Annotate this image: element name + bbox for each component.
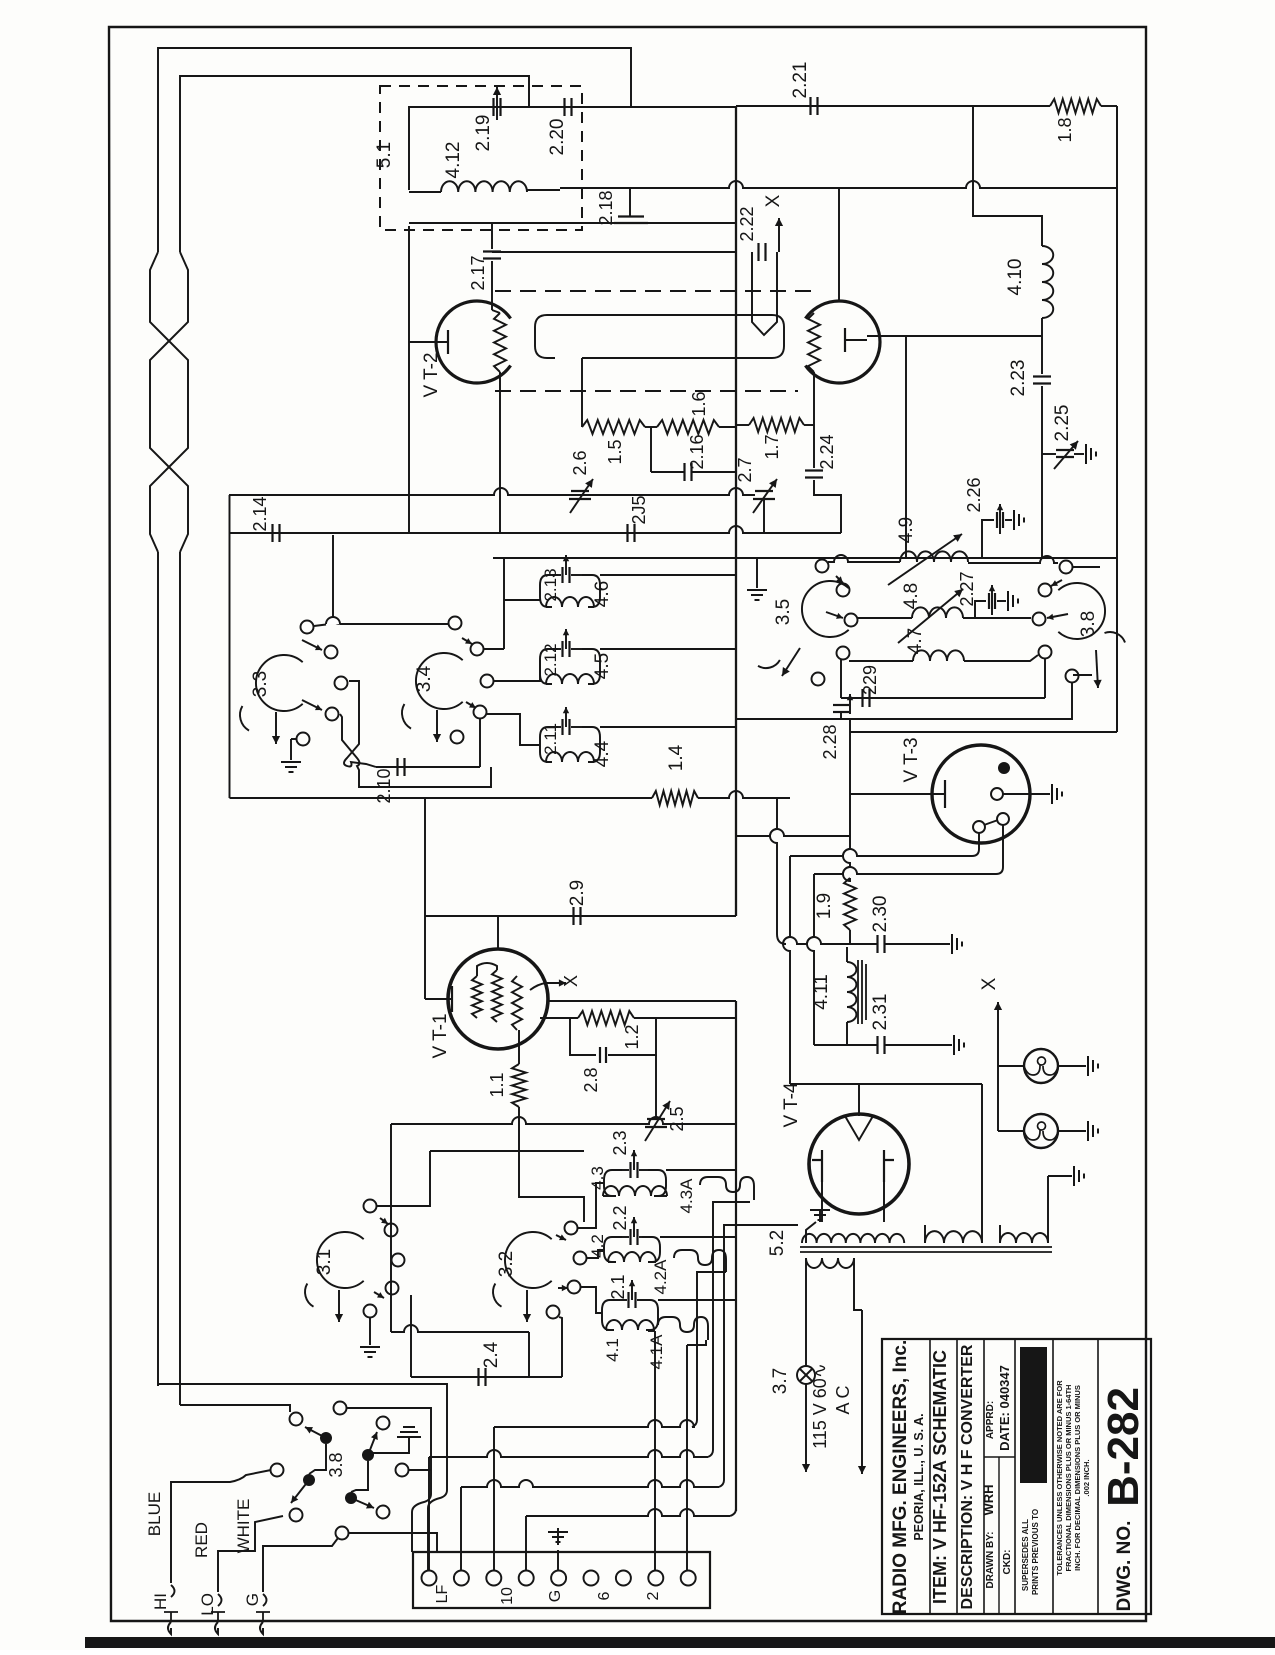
svg-text:10: 10: [499, 1587, 516, 1605]
VT-4 cathodes: [812, 1150, 894, 1182]
capacitor 2.19: [493, 87, 501, 120]
switch 3.2 arc: [505, 1232, 552, 1288]
svg-text:2.18: 2.18: [596, 190, 616, 225]
wire 1.4 right: [698, 791, 790, 798]
svg-text:TOLERANCES UNLESS OTHERWISE NO: TOLERANCES UNLESS OTHERWISE NOTED ARE FO…: [1055, 1380, 1064, 1576]
title city: [912, 1413, 926, 1540]
resistor 1.6: [645, 420, 736, 434]
wire 3.3 to 3.4 top: [314, 617, 448, 626]
label 1.6: [689, 391, 709, 416]
label 5.1: [374, 142, 395, 168]
wire strip row 1516: [526, 1509, 736, 1570]
capacitor 2.10: [398, 758, 405, 776]
title drawn by: [981, 1484, 996, 1588]
svg-text:INCH. FOR DECIMAL DIMENSIONS: INCH. FOR DECIMAL DIMENSIONS PLUS OR MIN…: [1073, 1385, 1082, 1571]
label G strip: [547, 1590, 564, 1602]
title supersedes: [1021, 1509, 1040, 1595]
label 5.2: [767, 1230, 788, 1256]
wire row 1151: [377, 1151, 584, 1206]
svg-text:2.8: 2.8: [581, 1067, 601, 1092]
svg-text:4.8: 4.8: [901, 583, 922, 609]
capacitor 2.15: [628, 524, 635, 542]
wire VT-4 plate row: [790, 1083, 982, 1085]
vertical 2.14 to switch box: [333, 535, 340, 624]
coil 4.4 assembly with trimmer 2.11: [540, 707, 600, 762]
border frame: [109, 27, 1146, 1621]
label 1.5: [605, 439, 625, 464]
crossover X junction: [340, 681, 491, 787]
switch 3.3 ground: [281, 739, 301, 772]
switch 3.4 arc: [416, 653, 463, 709]
title dwg no: [1114, 1521, 1135, 1612]
wire 3.8 block top2: [180, 1405, 290, 1412]
coil 4.7: [849, 650, 1038, 661]
svg-text:CKD:: CKD:: [1002, 1550, 1013, 1575]
capacitor 2.26: [982, 504, 1012, 558]
label 2.15: [629, 495, 649, 524]
pilot lamp 2: [998, 1114, 1086, 1148]
svg-text:2.20: 2.20: [547, 119, 568, 156]
right bus vertical: [1116, 106, 1118, 732]
coil 4.12: [409, 181, 560, 192]
VT-4 cathode leads: [822, 1182, 884, 1222]
VT-1 grid top hooks: [477, 963, 497, 976]
capacitor 2.8 loop: [570, 1018, 656, 1063]
VT-1 grids: [472, 970, 522, 1030]
switch 3.8 contacts: [271, 1402, 409, 1540]
resistor 1.2: [578, 1011, 634, 1025]
svg-text:2.9: 2.9: [567, 880, 588, 906]
switch 3.5 arrows: [826, 576, 843, 619]
AC arrow 1: [802, 1384, 810, 1472]
svg-text:3.7: 3.7: [770, 1368, 791, 1394]
coil 4.11 core: [858, 960, 866, 1024]
label 4.4: [592, 740, 613, 767]
VT-1 X arrow: [530, 975, 581, 990]
svg-text:5.1: 5.1: [374, 142, 395, 168]
svg-text:1.8: 1.8: [1055, 117, 1075, 142]
label 4.6: [592, 581, 613, 607]
svg-text:4.1A: 4.1A: [647, 1334, 666, 1370]
transformer 5.2 primary: [806, 1258, 854, 1268]
svg-text:1.7: 1.7: [762, 434, 782, 459]
lamp 3.7: [797, 1366, 815, 1384]
switch 3.8b rotor arrow: [1094, 632, 1126, 688]
label 3.3: [250, 671, 271, 697]
switch 3.3 arc: [256, 655, 303, 711]
label 2.19: [473, 115, 494, 152]
capacitor 2.16: [651, 427, 736, 481]
hollow arrow into VT-2: [752, 252, 777, 335]
svg-text:1.5: 1.5: [605, 439, 625, 464]
label VT-4: [781, 1082, 802, 1127]
svg-text:2.6: 2.6: [570, 450, 590, 475]
VT-1 top lead: [497, 916, 499, 950]
svg-text:6: 6: [596, 1591, 613, 1600]
svg-text:4.5: 4.5: [592, 653, 613, 679]
resistor 1.5: [582, 420, 645, 434]
label 2.4: [481, 1341, 502, 1368]
label 2.28: [820, 724, 840, 759]
svg-text:229: 229: [860, 665, 880, 695]
AC arrow 2: [858, 1310, 866, 1474]
label 2.9: [567, 880, 588, 906]
vertical 4.10 feed: [973, 106, 1042, 246]
svg-text:WHITE: WHITE: [234, 1499, 253, 1554]
switch 3.1 arc: [317, 1232, 364, 1288]
label 2.1: [608, 1274, 628, 1299]
VT-2 right grid resistor: [808, 313, 820, 372]
VT-1 cathode: [425, 986, 452, 1012]
label 3.5: [773, 599, 794, 625]
svg-text:2.19: 2.19: [473, 115, 494, 152]
resistor 1.4: [652, 791, 698, 805]
svg-text:4.3A: 4.3A: [677, 1178, 696, 1214]
wire strip row 1427: [494, 1272, 726, 1570]
vertical 2.25 down to box: [1041, 454, 1043, 558]
VT-3 ground: [1003, 784, 1062, 804]
switch 3.2 rotor arrow: [493, 1284, 531, 1323]
ground 2.31: [954, 1035, 964, 1055]
VT-3 grid: [850, 780, 945, 808]
wires coilbox left to contacts: [484, 558, 540, 745]
svg-text:4.11: 4.11: [811, 974, 832, 1010]
svg-text:LO: LO: [198, 1593, 217, 1616]
svg-text:DRAWN BY:: DRAWN BY:: [985, 1531, 996, 1588]
switch 3.2 arrows: [556, 1234, 568, 1291]
VT-2 left grid resistor: [494, 313, 506, 372]
wire 2.4 row: [411, 1317, 562, 1377]
wire VT-2 grid row: [409, 222, 736, 224]
title item: [930, 1350, 950, 1604]
ground 2.27: [1008, 591, 1018, 611]
label 2.12: [541, 643, 560, 676]
wire 2.10 row: [376, 718, 480, 767]
capacitor 2.14: [273, 524, 280, 542]
coil 4.6 assembly with trimmer 2.13: [540, 555, 600, 607]
svg-text:2.17: 2.17: [468, 255, 488, 290]
switch 3.4 contacts: [449, 617, 494, 744]
tube VT-4: [809, 1114, 909, 1214]
svg-text:3.4: 3.4: [414, 665, 435, 692]
dashed shield box 5.1: [380, 86, 582, 230]
coil 4.11: [847, 947, 856, 1045]
tube VT-2 dashed envelope top: [495, 290, 820, 292]
label 3.7: [770, 1368, 791, 1394]
left bracket column: [229, 495, 231, 798]
switch 3.3 arrows: [302, 640, 322, 710]
vertical 5.1 left: [408, 226, 410, 533]
wire left vertical blue run: [157, 552, 159, 1386]
ground 2.26: [1014, 510, 1024, 530]
label 4.7: [905, 628, 926, 654]
coil 4.2 assembly with trimmer 2.2: [604, 1217, 660, 1262]
capacitor 2.17: [483, 223, 736, 313]
label 2.3: [610, 1130, 630, 1155]
label 3.2: [496, 1251, 517, 1277]
svg-text:2.23: 2.23: [1008, 360, 1029, 397]
ground box left: [747, 558, 767, 600]
capacitor 2.29: [841, 658, 1045, 707]
wire row B: [229, 526, 841, 533]
capacitor 2.27: [975, 585, 1006, 618]
bundle vertical 4.1 lead: [648, 1331, 655, 1570]
label 2.17: [468, 255, 488, 290]
switch 3.8 pole links: [309, 1444, 368, 1492]
bundle vertical 4.1A lead: [687, 1340, 706, 1570]
wire bus to VT-3 column: [737, 829, 850, 836]
terminal HI: [151, 1577, 178, 1634]
svg-text:RED: RED: [192, 1522, 211, 1558]
ground heater: [1074, 1166, 1084, 1186]
svg-text:4.10: 4.10: [1005, 259, 1026, 296]
switch 3.4 rotor arrow: [402, 704, 441, 742]
tube VT-3: [932, 745, 1030, 843]
vertical x777: [770, 798, 786, 944]
svg-text:2.5: 2.5: [667, 1106, 687, 1131]
wire top loop B: [180, 76, 529, 252]
label VT-1: [430, 1013, 451, 1058]
capacitor 2.31: [814, 1036, 952, 1054]
switch box top wire: [493, 557, 736, 559]
svg-text:2J5: 2J5: [629, 495, 649, 524]
label AC: [833, 1385, 853, 1414]
wire VT-3 pin to row: [790, 833, 979, 856]
label 1.9: [814, 893, 835, 919]
resistor 1.7: [736, 418, 814, 432]
label 2.10: [374, 768, 394, 803]
svg-text:.002 INCH.: .002 INCH.: [1082, 1459, 1091, 1496]
wire left vertical red run: [179, 552, 181, 1405]
label 4.9: [896, 517, 917, 543]
ground lamp 1: [1088, 1056, 1098, 1076]
label 10: [499, 1587, 516, 1605]
label 4.5: [592, 653, 613, 679]
svg-text:2.26: 2.26: [964, 477, 984, 512]
wire 3.8b right contacts: [1072, 567, 1100, 675]
switch 3.3 rotor arrow: [240, 706, 280, 744]
svg-text:FRACTIONAL DIMENSIONS PLUS OR: FRACTIONAL DIMENSIONS PLUS OR MINUS 1-64…: [1064, 1385, 1073, 1572]
wire row A: [229, 488, 755, 495]
label VT-2: [421, 352, 442, 397]
switch 3.5 rotor arrow: [758, 648, 800, 676]
wire strip row 1457: [429, 1202, 750, 1570]
title block frame: [882, 1339, 1151, 1614]
svg-text:3.1: 3.1: [314, 1249, 335, 1275]
trimmer capacitor 2.7: [753, 479, 777, 533]
wire 5.1 top: [409, 107, 736, 190]
pilot lamp 1: [998, 1049, 1086, 1083]
vertical VT-1 left: [424, 798, 426, 999]
coil 4.10: [1042, 246, 1053, 318]
coil 4.2A: [674, 1250, 726, 1272]
transformer 5.2 core: [800, 1247, 1052, 1252]
svg-text:2.14: 2.14: [250, 496, 270, 531]
svg-text:2.4: 2.4: [481, 1341, 502, 1368]
switch 3.1 arrows: [374, 1218, 388, 1298]
label 2.8: [581, 1067, 601, 1092]
label 4.3: [588, 1166, 607, 1190]
svg-text:X: X: [979, 977, 1000, 990]
wire row 1124 left corner: [390, 1124, 392, 1332]
label 2.20: [547, 119, 568, 156]
wire row 1332: [391, 1325, 529, 1332]
transformer secondary2 lead up: [981, 1084, 983, 1225]
bus lower vertical: [735, 1001, 737, 1511]
label 2.24: [817, 434, 837, 469]
vertical VT-2 plate up: [838, 187, 840, 301]
label 3.1: [314, 1249, 335, 1275]
coil 4.8 arrow: [898, 589, 963, 643]
svg-text:A C: A C: [833, 1385, 853, 1414]
label 1.8: [1055, 117, 1075, 142]
svg-text:G: G: [547, 1590, 564, 1602]
arrow X out: [763, 194, 784, 252]
svg-text:3.8: 3.8: [1078, 611, 1099, 637]
wire box bottom 1.4 row: [230, 797, 653, 799]
coil 4.5 assembly with trimmer 2.12: [540, 629, 600, 684]
label 2.11: [541, 723, 560, 755]
svg-text:2.3: 2.3: [610, 1130, 630, 1155]
capacitor 2.18: [614, 188, 648, 223]
svg-text:V T-3: V T-3: [901, 737, 922, 782]
label 2.2: [610, 1205, 630, 1230]
wire column to right bus: [850, 731, 1117, 733]
label 2.16: [687, 434, 707, 469]
svg-text:V T-4: V T-4: [781, 1082, 802, 1127]
resistor 1.9 column: [843, 719, 856, 944]
svg-text:2.11: 2.11: [541, 723, 560, 755]
switch 3.2 contacts: [547, 1222, 587, 1319]
title number B-282: [1099, 1387, 1148, 1507]
switch 3.1 ground: [360, 1318, 380, 1357]
coil 4.8: [857, 607, 1031, 618]
wire strip row 1487: [461, 1225, 798, 1570]
label 4.2: [588, 1234, 607, 1258]
svg-text:1.6: 1.6: [689, 391, 709, 416]
svg-text:1.4: 1.4: [666, 744, 687, 771]
switch 3.1 contacts: [364, 1200, 405, 1318]
label 6: [596, 1591, 613, 1600]
svg-text:3.5: 3.5: [773, 599, 794, 625]
svg-text:3.8: 3.8: [326, 1452, 346, 1477]
switch 3.8 wiring bottom: [349, 1533, 437, 1552]
svg-text:2.25: 2.25: [1052, 405, 1073, 442]
switch 3.8 arrows: [291, 1427, 378, 1509]
svg-text:4.9: 4.9: [896, 517, 917, 543]
VT-3 pin circles: [973, 788, 1009, 833]
title date: [997, 1365, 1012, 1451]
label 2.6: [570, 450, 590, 475]
primary lead right: [854, 1258, 862, 1310]
svg-text:4.6: 4.6: [592, 581, 613, 607]
switch box right outline: [736, 558, 1117, 719]
label 1.7: [762, 434, 782, 459]
svg-text:DESCRIPTION: V H F CONVERTER: DESCRIPTION: V H F CONVERTER: [959, 1344, 976, 1609]
switch 3.8b arrows: [1047, 580, 1068, 620]
vertical x790: [783, 856, 790, 1084]
VT-2 grid box: [535, 315, 784, 358]
coil 4.1A: [658, 1317, 708, 1340]
wire top loop A: [158, 48, 631, 252]
coil 4.9: [828, 551, 1058, 563]
wire VT-2 plate to 4.10: [867, 318, 1042, 336]
trimmer capacitor 2.6: [569, 479, 593, 513]
svg-text:2.16: 2.16: [687, 434, 707, 469]
svg-text:X: X: [561, 975, 581, 987]
tube VT-1: [448, 949, 548, 1049]
label 4.1A: [647, 1334, 666, 1370]
resistor 1.1: [512, 1030, 526, 1107]
svg-text:1.9: 1.9: [814, 893, 835, 919]
label 2.7: [735, 457, 755, 482]
capacitor 2.23: [1033, 336, 1051, 454]
switch 3.8b arc: [1058, 583, 1105, 639]
switch 3.4 arrows: [462, 638, 476, 708]
wire 2.9 row: [425, 915, 736, 917]
svg-text:RADIO MFG. ENGINEERS, Inc.: RADIO MFG. ENGINEERS, Inc.: [890, 1340, 911, 1614]
title tolerances: [1055, 1380, 1091, 1576]
label RED: [192, 1522, 211, 1558]
coil 4.1 assembly with trimmer 2.1: [602, 1280, 658, 1330]
coil 4.9 arrow: [888, 534, 962, 585]
label 3.8b: [1078, 611, 1099, 637]
svg-text:1.1: 1.1: [487, 1072, 507, 1097]
VT-2 left vertical to bottom: [499, 372, 501, 533]
svg-text:2.21: 2.21: [790, 62, 811, 99]
wire blue: [171, 1470, 271, 1577]
svg-text:2.2: 2.2: [610, 1205, 630, 1230]
svg-text:PEORIA, ILL., U. S. A.: PEORIA, ILL., U. S. A.: [912, 1413, 926, 1540]
label 2.29: [860, 665, 880, 695]
svg-text:SUPERSEDES ALL: SUPERSEDES ALL: [1021, 1519, 1030, 1591]
svg-text:X: X: [763, 194, 784, 207]
title ckd: [1002, 1550, 1013, 1575]
transformer 5.2 ground: [806, 1210, 830, 1243]
label 4.10: [1005, 259, 1026, 296]
label 4.8: [901, 583, 922, 609]
capacitor 2.4: [479, 1368, 486, 1386]
terminal LO: [198, 1593, 225, 1634]
VT-4 top lead: [858, 1084, 860, 1116]
VT-3 plate dot: [998, 762, 1010, 774]
label WHITE: [234, 1499, 253, 1554]
capacitor 2.28: [833, 694, 853, 719]
svg-text:2: 2: [645, 1591, 662, 1600]
VT-4 filament V: [845, 1116, 873, 1140]
svg-text:B-282: B-282: [1099, 1387, 1148, 1507]
svg-text:HI: HI: [151, 1593, 170, 1610]
label 2.31: [870, 994, 891, 1031]
svg-text:PRINTS PREVIOUS TO: PRINTS PREVIOUS TO: [1031, 1509, 1040, 1595]
label BLUE: [145, 1492, 164, 1536]
label 2: [645, 1591, 662, 1600]
label 2.18: [596, 190, 616, 225]
svg-text:115 V 60∿: 115 V 60∿: [810, 1363, 830, 1449]
label 115V 60: [810, 1363, 830, 1449]
vertical x814: [807, 874, 814, 1045]
wire top right: [736, 105, 1050, 107]
transformer secondary3 leads: [1048, 1176, 1072, 1225]
svg-text:2.1: 2.1: [608, 1274, 628, 1299]
transformer 5.2 secondary 3: [1000, 1225, 1048, 1243]
switch 3.8b contacts: [1033, 561, 1079, 683]
label 3.4: [414, 665, 435, 692]
wire 1.2 row: [540, 1017, 736, 1019]
label 2.27: [957, 571, 977, 606]
svg-text:APPRD:: APPRD:: [985, 1401, 996, 1439]
label 3.8: [326, 1452, 346, 1477]
